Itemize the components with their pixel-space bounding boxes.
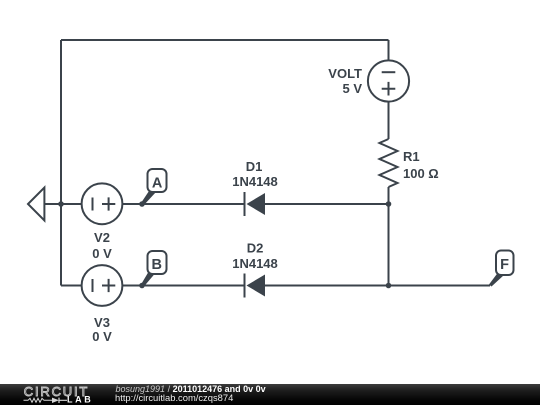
logo resistor zigzag xyxy=(24,398,53,402)
diode D2 xyxy=(245,274,266,298)
svg-text:5 V: 5 V xyxy=(342,81,362,96)
wire D1 to right vertical xyxy=(265,203,389,205)
svg-text:B: B xyxy=(152,257,162,273)
svg-text:1N4148: 1N4148 xyxy=(232,174,278,189)
node B junction dot xyxy=(139,283,145,289)
input pin triangle xyxy=(28,188,44,221)
svg-text:D1: D1 xyxy=(246,159,263,174)
footer bar xyxy=(0,384,540,405)
voltage source V3 xyxy=(82,265,123,306)
svg-text:V3: V3 xyxy=(94,315,110,330)
wire VOLT to R1 xyxy=(388,102,390,139)
wire R1 bottom vertical xyxy=(388,187,390,286)
diode D1 xyxy=(245,192,266,216)
voltage source V2 xyxy=(82,183,123,224)
junction dot left xyxy=(58,201,64,207)
wire V2 to D1 xyxy=(123,203,246,205)
svg-text:D2: D2 xyxy=(247,241,264,256)
wire left vertical xyxy=(60,40,62,286)
svg-text:F: F xyxy=(500,257,509,273)
wire triangle to V2 xyxy=(44,203,82,205)
svg-text:A: A xyxy=(152,176,163,192)
node A junction dot xyxy=(139,201,145,207)
wire VOLT top stub xyxy=(388,40,390,60)
wire V3 to D2 xyxy=(123,285,245,287)
wire top horizontal xyxy=(61,39,389,41)
svg-text:LAB: LAB xyxy=(67,395,93,405)
logo diode xyxy=(52,398,59,403)
node A flag xyxy=(141,169,167,206)
svg-text:R1: R1 xyxy=(403,149,420,164)
wire left to V3 xyxy=(61,285,82,287)
svg-text:VOLT: VOLT xyxy=(328,66,362,81)
node F flag xyxy=(489,251,514,287)
wire D2 to F xyxy=(265,285,490,287)
junction dot R1 bottom xyxy=(386,201,392,207)
svg-text:0 V: 0 V xyxy=(92,329,112,344)
resistor R1 xyxy=(380,139,398,187)
node B flag xyxy=(141,251,167,287)
svg-text:100 Ω: 100 Ω xyxy=(403,166,439,181)
svg-text:V2: V2 xyxy=(94,230,110,245)
svg-text:http://circuitlab.com/czqs874: http://circuitlab.com/czqs874 xyxy=(115,392,233,403)
junction dot row2 right xyxy=(386,283,392,289)
svg-text:1N4148: 1N4148 xyxy=(232,256,278,271)
svg-text:0 V: 0 V xyxy=(92,246,112,261)
voltage source VOLT xyxy=(368,60,409,101)
